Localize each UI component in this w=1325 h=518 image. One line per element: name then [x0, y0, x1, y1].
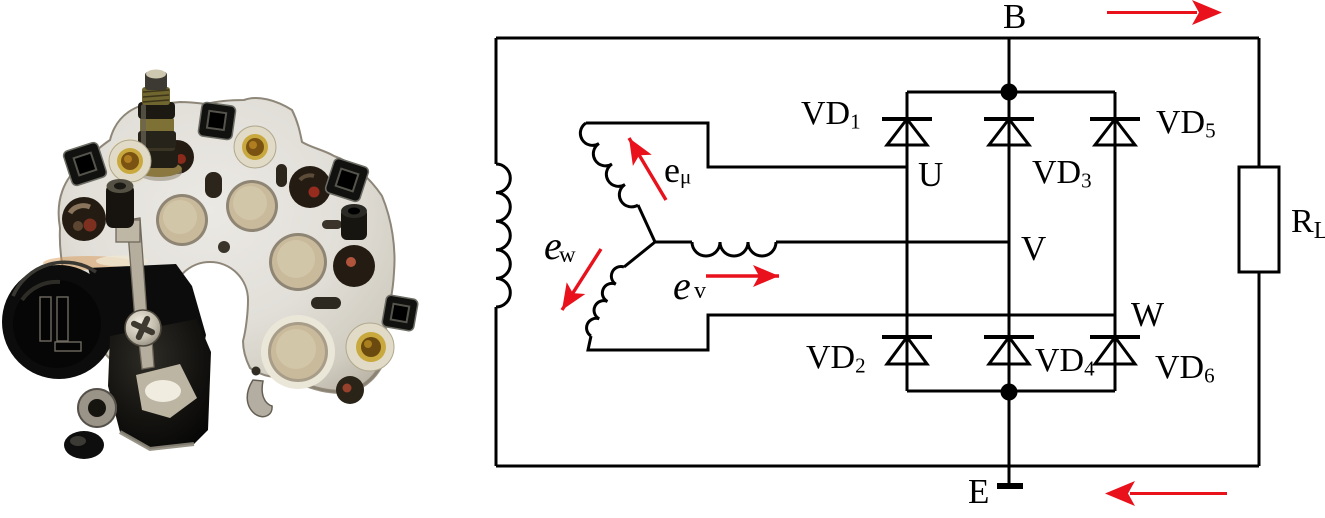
wire: top bus B: [496, 37, 1259, 40]
coil: stator phase V winding: [655, 242, 776, 256]
emf arrow e_w: [562, 249, 601, 310]
diode well dark: [289, 166, 331, 208]
wire: B drop to bridge: [1008, 38, 1011, 92]
diode VD6: [1090, 337, 1140, 364]
wire: outer loop left vertical top: [495, 38, 498, 164]
diode pad: [226, 180, 278, 232]
resistor RL: [1239, 167, 1279, 272]
box specular highlight: [136, 364, 197, 418]
wire: bridge top rail: [907, 91, 1115, 94]
slot cutouts on plate: [205, 172, 222, 198]
diode well dark: [62, 197, 106, 241]
housing bridge to plate: [88, 264, 206, 362]
housing box: [108, 319, 211, 449]
wire: W phase bottom segment: [588, 315, 1115, 350]
connector recess: [13, 280, 101, 368]
diode VD2: [882, 337, 932, 364]
diode pad: [156, 194, 208, 246]
rubber cylinder right: [341, 204, 367, 240]
terminal stud square top: [198, 102, 236, 140]
diode VD5: [1090, 119, 1140, 145]
bent tab lower middle: [247, 380, 272, 417]
field terminal strip and screw: [127, 218, 148, 333]
small stud with cap: [106, 179, 134, 228]
junction node at bridge top: [1001, 84, 1018, 101]
coil: rotor winding on left wire: [496, 164, 510, 307]
press-fit diode gold: [107, 138, 153, 184]
diode pad: [269, 233, 327, 291]
wire: bridge left column: [906, 92, 909, 391]
wire: V phase to bridge: [776, 241, 1009, 244]
coil: stator phase U winding: [580, 123, 638, 207]
terminal stud square top-left: [62, 141, 107, 186]
diode well under stud: [160, 140, 194, 174]
diode well dark: [333, 245, 375, 287]
wire: E drop: [1008, 391, 1011, 488]
wire: right vertical upper: [1258, 38, 1261, 167]
wire: right vertical lower: [1258, 272, 1261, 466]
svg-text:W: W: [1131, 295, 1164, 334]
terminal stud square lower-right: [381, 294, 418, 331]
press-fit diode gold left redraw: [109, 140, 151, 182]
wire: bridge right column: [1114, 92, 1117, 391]
wire: bridge middle column: [1008, 92, 1011, 391]
press-fit diode gold: [346, 323, 394, 371]
diode well dark: [336, 376, 364, 404]
current arrow bottom (left): [1130, 492, 1227, 495]
diode VD4: [984, 337, 1034, 364]
diode pad: [261, 315, 335, 389]
wire: outer loop left vertical bottom: [495, 307, 498, 466]
connector pins: [40, 297, 51, 341]
ground terminal E bar: [997, 483, 1023, 489]
diode VD1: [882, 119, 932, 145]
terminal stud square right: [324, 157, 369, 202]
B+ bolt stack: [136, 70, 182, 182]
wire: U phase top segment: [586, 123, 907, 167]
coil: stator phase W winding: [587, 242, 655, 336]
svg-text:E: E: [968, 472, 989, 511]
wire: U coil to star point: [638, 205, 655, 242]
svg-text:B: B: [1003, 0, 1026, 36]
wire: bottom bus: [496, 465, 1259, 468]
diode VD3: [984, 119, 1034, 145]
press-fit diode gold: [234, 126, 276, 168]
svg-text:V: V: [1021, 229, 1046, 268]
emf arrow e_u: [629, 138, 666, 200]
wire: bridge bottom rail: [907, 390, 1115, 393]
metal ring lug: [77, 388, 117, 428]
bottom rubber nub: [64, 431, 104, 459]
photo: alternator rectifier assembly: [2, 70, 419, 460]
regulator black housing: connector ring: [43, 256, 133, 270]
junction node at bridge bottom: [1001, 384, 1018, 401]
svg-text:w: w: [559, 242, 576, 267]
heatsink plate: [59, 98, 395, 392]
svg-text:U: U: [918, 155, 943, 194]
svg-text:e: e: [673, 263, 691, 308]
current arrow top (right): [1107, 11, 1197, 14]
emf arrow e_v: [706, 274, 779, 277]
svg-text:v: v: [694, 278, 706, 304]
